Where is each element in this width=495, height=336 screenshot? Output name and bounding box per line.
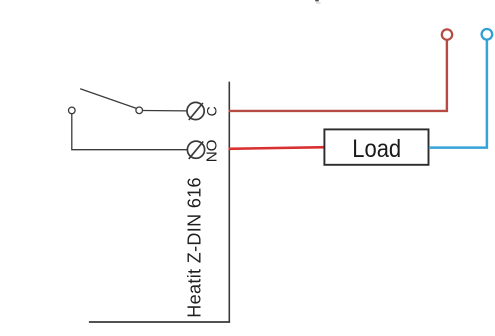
device box Heatit Z-DIN 616 (right edge) bbox=[228, 82, 230, 323]
terminal NO circle bbox=[187, 141, 204, 158]
wire to terminal NO bbox=[71, 149, 187, 151]
terminal N blue circle bbox=[482, 29, 493, 40]
terminal C circle bbox=[187, 102, 204, 119]
switch S1 left contact circle bbox=[69, 107, 76, 114]
device box bottom edge bbox=[89, 321, 230, 323]
terminal NO slash bbox=[189, 142, 203, 159]
switch S1 lever bbox=[80, 89, 136, 109]
artifact mark top center bbox=[315, 0, 320, 4]
wire red NO to Load bbox=[229, 147, 327, 149]
load box bbox=[324, 129, 428, 164]
svg-text:C: C bbox=[204, 106, 220, 116]
wire pivot to terminal C bbox=[143, 110, 187, 112]
svg-text:NO: NO bbox=[204, 139, 221, 162]
svg-text:Load: Load bbox=[352, 135, 401, 163]
switch S1 pivot circle bbox=[136, 107, 143, 114]
terminal L red circle bbox=[442, 29, 452, 39]
svg-text:Heatit Z-DIN 616: Heatit Z-DIN 616 bbox=[185, 177, 205, 318]
wire L red from C to top terminal bbox=[229, 40, 447, 111]
terminal C slash bbox=[189, 103, 203, 120]
wire left contact down bbox=[71, 114, 73, 150]
wire N blue from Load to top terminal bbox=[429, 40, 487, 147]
